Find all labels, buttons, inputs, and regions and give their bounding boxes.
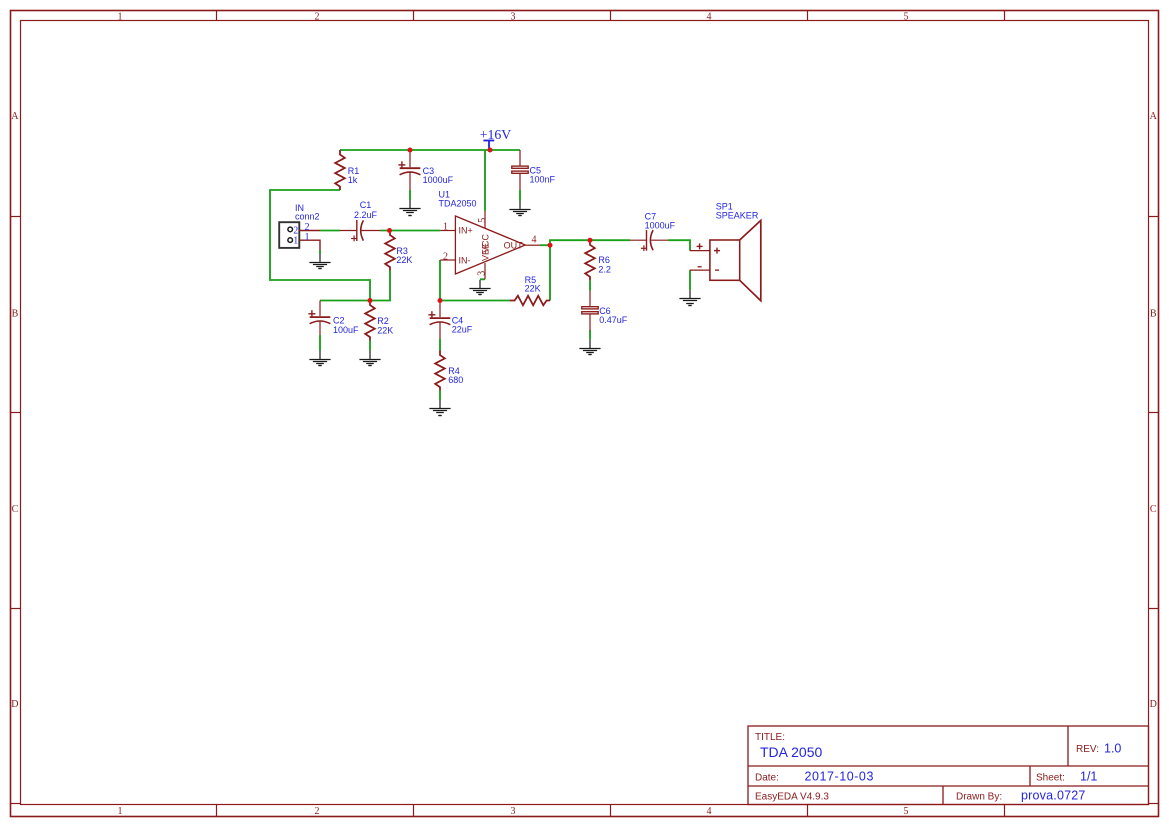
svg-text:B: B (1150, 308, 1157, 319)
svg-text:C2: C2 (333, 316, 345, 326)
svg-text:R6: R6 (598, 255, 610, 265)
svg-text:1/1: 1/1 (1080, 770, 1097, 784)
svg-text:100nF: 100nF (530, 175, 556, 185)
svg-text:TDA 2050: TDA 2050 (760, 744, 822, 760)
wire R5 up to OUT (549, 245, 551, 300)
resistor R4 (435, 351, 463, 391)
wire C5 bottom (519, 190, 521, 201)
svg-text:5: 5 (477, 218, 488, 223)
svg-text:1: 1 (118, 11, 123, 22)
svg-text:REV:: REV: (1076, 744, 1099, 755)
node C1 R3 IN+ junction (387, 228, 392, 233)
svg-text:EasyEDA V4.9.3: EasyEDA V4.9.3 (755, 792, 829, 803)
svg-text:A: A (11, 111, 19, 122)
svg-text:2: 2 (443, 252, 448, 263)
svg-text:prova.0727: prova.0727 (1021, 789, 1086, 803)
svg-text:4: 4 (707, 11, 712, 22)
svg-text:2: 2 (315, 11, 320, 22)
node R2 C2 junction (368, 298, 373, 303)
title block (748, 726, 1149, 805)
resistor R2 (365, 301, 393, 341)
svg-text:conn2: conn2 (295, 212, 320, 222)
wire R6 node to C7 (590, 239, 630, 241)
svg-text:2: 2 (315, 806, 320, 817)
svg-text:Sheet:: Sheet: (1036, 773, 1065, 784)
svg-text:OUT: OUT (504, 240, 523, 250)
ground R2 (359, 351, 380, 366)
capacitor C2 (308, 301, 359, 336)
svg-text:SPEAKER: SPEAKER (716, 210, 759, 220)
ground C2 (309, 351, 330, 366)
capacitor C4 (428, 301, 472, 339)
node top rail C3 junction (408, 148, 413, 153)
svg-text:Drawn By:: Drawn By: (956, 792, 1002, 803)
svg-text:1: 1 (305, 232, 310, 243)
node C4 IN- feedback junction (438, 298, 443, 303)
wire R4 bottom (439, 391, 441, 401)
connector IN conn2 (279, 203, 320, 250)
svg-text:3: 3 (476, 271, 487, 276)
svg-text:+16V: +16V (480, 127, 512, 142)
svg-text:3: 3 (511, 11, 516, 22)
svg-text:C: C (12, 504, 19, 515)
title text (755, 732, 1121, 803)
wire C7 to speaker plus (668, 240, 690, 250)
node OUT junction (548, 243, 553, 248)
svg-text:C1: C1 (360, 200, 372, 210)
wire conn2 pin2 to C1 (320, 230, 340, 232)
ground R4 (429, 400, 450, 416)
capacitor C5 (512, 150, 556, 190)
svg-text:C: C (1150, 504, 1157, 515)
svg-text:2.2: 2.2 (598, 265, 611, 275)
svg-text:4: 4 (532, 235, 537, 246)
capacitor C7 (630, 211, 676, 251)
wire C3 bottom (409, 190, 411, 200)
wire C4 to R4 (439, 338, 441, 350)
svg-text:Date:: Date: (755, 773, 779, 784)
wire speaker minus to ground (689, 270, 691, 290)
capacitor C6 (582, 291, 628, 331)
wire conn2 pin1 down (319, 250, 321, 254)
svg-text:2.2uF: 2.2uF (354, 210, 378, 220)
ground speaker minus (679, 290, 700, 305)
wire +16V to pin5 (484, 150, 486, 211)
speaker SP1 (690, 202, 761, 301)
svg-text:1: 1 (118, 806, 123, 817)
wire R1 bottom to left rail (270, 190, 370, 301)
svg-text:IN+: IN+ (459, 225, 473, 235)
resistor R1 (335, 150, 359, 190)
wire pin3 step (480, 278, 485, 280)
wire top power rail (340, 149, 520, 151)
svg-text:R2: R2 (377, 316, 389, 326)
svg-text:TITLE:: TITLE: (755, 732, 785, 743)
svg-text:1000uF: 1000uF (645, 220, 676, 230)
ground C6 (579, 340, 600, 355)
svg-text:4: 4 (707, 806, 712, 817)
svg-text:A: A (1150, 111, 1158, 122)
ground C3 (399, 200, 420, 216)
svg-text:1000uF: 1000uF (423, 175, 454, 185)
wire OUT stub (540, 244, 550, 246)
svg-text:0.47uF: 0.47uF (599, 315, 628, 325)
svg-text:1.0: 1.0 (1104, 742, 1121, 756)
wire C2 bottom (319, 335, 321, 351)
svg-text:22K: 22K (525, 284, 541, 294)
svg-text:B: B (12, 308, 19, 319)
svg-text:1k: 1k (348, 175, 358, 185)
op-amp U1 (439, 189, 541, 279)
svg-text:1: 1 (293, 236, 298, 247)
svg-text:5: 5 (904, 806, 909, 817)
svg-text:22uF: 22uF (452, 324, 473, 334)
svg-text:22K: 22K (377, 326, 393, 336)
wire R2 bottom (369, 341, 371, 351)
svg-text:2017-10-03: 2017-10-03 (805, 770, 874, 784)
svg-text:5: 5 (904, 11, 909, 22)
ground C5 (509, 201, 530, 216)
svg-text:VEE: VEE (481, 243, 491, 261)
svg-text:IN-: IN- (459, 255, 471, 265)
svg-text:100uF: 100uF (333, 325, 359, 335)
svg-text:D: D (11, 699, 18, 710)
svg-text:680: 680 (448, 375, 463, 385)
capacitor C1 (340, 200, 381, 241)
wire IN- vertical (439, 260, 441, 301)
resistor R3 (385, 231, 412, 271)
wire OUT to R6 node (550, 240, 590, 245)
wire C6 bottom (589, 330, 591, 340)
svg-text:TDA2050: TDA2050 (439, 198, 477, 208)
wire R6 to C6 (589, 280, 591, 291)
node R6 junction (588, 238, 593, 243)
ground op-amp VEE (469, 280, 490, 295)
wire C2 R2 R3 node rail (320, 271, 390, 301)
svg-text:22K: 22K (396, 255, 412, 265)
capacitor C3 (398, 150, 453, 190)
svg-text:1: 1 (443, 222, 448, 233)
power flag +16V (480, 127, 512, 150)
wire feedback node to R5 (440, 300, 510, 302)
ground conn2 pin1 (309, 254, 330, 269)
node +16V junction (488, 148, 493, 153)
resistor R5 (510, 275, 550, 305)
resistor R6 (585, 240, 611, 280)
svg-text:3: 3 (511, 806, 516, 817)
wire C1 to IN+ (381, 230, 441, 232)
svg-text:D: D (1150, 699, 1157, 710)
